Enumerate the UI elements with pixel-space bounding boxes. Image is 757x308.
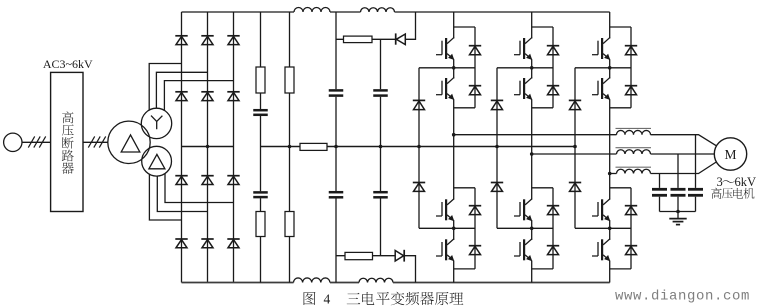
breaker label char 压 <box>62 124 74 135</box>
IGBT Q6 <box>523 78 525 99</box>
leg 1 main column lower <box>453 220 455 282</box>
leg 3 freewheel column lower <box>630 188 632 269</box>
svg-text:6kV: 6kV <box>735 175 757 189</box>
motor M1 <box>714 138 746 170</box>
transformer T1 secondary winding (delta) <box>142 146 172 176</box>
wire delta phase b <box>157 176 207 212</box>
leg 3 main column lower <box>609 220 611 282</box>
transformer T1 secondary delta symbol <box>149 154 165 168</box>
inductor LU core <box>616 127 652 129</box>
svg-text:M: M <box>724 147 736 162</box>
transformer T1 primary delta symbol <box>121 135 140 152</box>
leg 3 freewheel diode DF11 <box>625 205 637 207</box>
leg 2 lower midpoint link <box>497 227 553 229</box>
breaker label char 器 <box>62 162 74 173</box>
column B wire <box>289 12 291 283</box>
resistor R2 <box>256 212 265 237</box>
resistor R4 <box>285 212 294 237</box>
rectifier midpoint link <box>182 146 234 148</box>
wire U to motor <box>651 135 718 147</box>
leg 2 rejoin upper <box>532 107 553 109</box>
leg 2 upper midpoint link <box>497 67 553 69</box>
node neutral junction <box>288 145 292 149</box>
resistor R1 <box>256 67 265 93</box>
leg 1 upper midpoint link <box>419 67 475 69</box>
IGBT Q12 <box>601 239 603 260</box>
breaker label char 路 <box>62 150 74 162</box>
AC source G1 <box>4 133 22 151</box>
leg 2 freewheel diode DF8 <box>547 245 559 247</box>
DC- bottom rail <box>182 282 294 284</box>
leg 2 clamp column <box>496 68 498 229</box>
diode D13 <box>395 33 397 44</box>
leg 3 clamp column <box>574 68 576 229</box>
leg 1 freewheel column lower <box>474 188 476 269</box>
motor label char 高 <box>711 188 722 199</box>
leg 2 main column lower <box>531 220 533 282</box>
resistor R7 <box>345 252 373 259</box>
leg 3 clamp diode DC5 <box>569 99 581 101</box>
svg-text:4: 4 <box>324 291 331 306</box>
leg 1 freewheel diode DF3 <box>469 205 481 207</box>
wire Y phase a <box>149 64 181 111</box>
node upper midpoint leg 1 <box>452 66 456 70</box>
leg 3 rejoin upper <box>610 107 631 109</box>
rectifier column 2 wire <box>207 12 209 283</box>
leg 2 freewheel diode DF5 <box>547 45 559 47</box>
leg 1 freewheel diode DF2 <box>469 85 481 87</box>
leg 3 branch to diode column lower <box>610 187 631 189</box>
node neutral junction <box>334 145 338 149</box>
caption char 频 <box>405 292 419 305</box>
wire Y phase b <box>156 72 207 108</box>
wire breaker to transformer <box>83 141 108 143</box>
leg 1 lower midpoint link <box>419 227 475 229</box>
leg 2 branch to diode column top <box>532 26 553 28</box>
node neutral end <box>573 145 576 148</box>
filter ground bus <box>660 211 696 213</box>
3-phase slashes cable 1 <box>28 136 34 147</box>
node phase output leg 2 <box>530 152 534 156</box>
phase U line <box>453 134 617 136</box>
resistor R5 on neutral <box>300 143 327 150</box>
leg 3 freewheel diode DF10 <box>625 85 637 87</box>
filter capacitor C7 <box>652 188 667 191</box>
inductor LV <box>617 150 651 154</box>
capacitor C3 <box>329 89 344 92</box>
capacitor C6 <box>373 191 388 194</box>
wire delta phase a <box>149 174 181 220</box>
rectifier diode D11 <box>201 238 213 240</box>
node lower midpoint leg 1 <box>452 227 456 231</box>
column A wire to mid <box>260 116 262 147</box>
leg 2 clamp diode DC4 <box>491 182 503 184</box>
leg 2 main column upper <box>531 12 533 199</box>
leg 3 clamp diode DC6 <box>569 182 581 184</box>
wire Y phase c <box>164 81 233 111</box>
leg 3 freewheel diode DF12 <box>625 245 637 247</box>
node upper midpoint leg 3 <box>608 66 612 70</box>
node lower midpoint leg 2 <box>530 227 534 231</box>
phase V line <box>531 153 617 155</box>
rectifier diode D12 <box>227 238 239 240</box>
caption char 理 <box>449 292 463 304</box>
leg 1 freewheel column upper <box>474 27 476 108</box>
rectifier diode D2 <box>201 35 213 37</box>
node phase output leg 1 <box>452 133 456 137</box>
IGBT Q3 <box>445 199 447 220</box>
motor label char 压 <box>722 188 733 198</box>
filter capacitor C8 <box>671 188 686 191</box>
motor label char 机 <box>743 188 754 199</box>
wire W to motor <box>651 162 718 174</box>
leg 1 clamp column <box>418 68 420 229</box>
IGBT Q1 <box>445 38 447 59</box>
node lower midpoint leg 3 <box>608 227 612 231</box>
caption char 变 <box>391 292 405 306</box>
IGBT Q7 <box>523 199 525 220</box>
filter cap C9 lower lead <box>695 197 697 212</box>
DC+ top rail <box>182 11 295 13</box>
leg 2 branch to diode column lower <box>532 187 553 189</box>
column C wire upper <box>335 12 337 89</box>
leg 3 lower midpoint link <box>575 227 631 229</box>
filter tap V <box>677 154 679 188</box>
rectifier diode D1 <box>175 35 187 37</box>
leg 1 branch to diode column lower <box>454 187 475 189</box>
rectifier diode D10 <box>175 238 187 240</box>
capacitor C5 <box>373 89 388 92</box>
leg 2 freewheel diode DF7 <box>547 205 559 207</box>
inductor LU <box>617 130 651 134</box>
rectifier diode D7 <box>175 175 187 177</box>
3-phase slashes cable 2 <box>88 136 94 147</box>
motor label char 电 <box>733 188 743 199</box>
svg-text:www.diangon.com: www.diangon.com <box>615 289 750 305</box>
leg 3 branch to diode column top <box>610 26 631 28</box>
leg 1 rejoin upper <box>454 107 475 109</box>
leg 3 main column upper <box>609 12 611 199</box>
caption char 三 <box>347 293 361 304</box>
resistor R6 <box>344 36 373 43</box>
filter capacitor C9 <box>688 188 703 191</box>
rectifier diode D8 <box>201 175 213 177</box>
column A wire bottom <box>260 198 262 282</box>
node rectifier midpoint <box>206 145 209 148</box>
caption char 平 <box>376 292 389 305</box>
leg 2 clamp diode DC3 <box>491 99 503 101</box>
wire precharge top <box>336 12 416 39</box>
leg 1 main column upper <box>453 12 455 199</box>
column C wire middle <box>335 97 337 191</box>
leg 1 clamp diode DC1 <box>413 99 425 101</box>
filter tap U <box>695 135 697 188</box>
leg 1 rejoin lower <box>454 268 475 270</box>
rectifier column 1 wire <box>181 12 183 283</box>
caption char 器 <box>420 292 434 305</box>
node phase output leg 3 <box>608 172 612 176</box>
leg 1 branch to diode column top <box>454 26 475 28</box>
caption char 图 <box>304 292 316 305</box>
IGBT Q8 <box>523 239 525 260</box>
rectifier column 3 wire <box>233 12 235 283</box>
breaker label char 高 <box>62 111 73 123</box>
node neutral junction <box>379 145 383 149</box>
IGBT Q5 <box>523 38 525 59</box>
rectifier diode D4 <box>175 91 187 93</box>
rectifier diode D5 <box>201 91 213 93</box>
leg 2 rejoin lower <box>532 268 553 270</box>
leg 1 freewheel diode DF1 <box>469 45 481 47</box>
breaker label char 断 <box>62 137 74 149</box>
wire precharge bottom <box>336 256 416 283</box>
breaker QF1 box <box>51 72 83 211</box>
node clamp-neutral junction leg 2 <box>495 145 499 149</box>
transformer T1 Y symbol <box>151 116 162 130</box>
capacitor C1 <box>253 109 268 112</box>
column C wire lower <box>335 199 337 283</box>
leg 1 clamp diode DC2 <box>413 182 425 184</box>
column D wire middle <box>380 97 382 191</box>
caption char 电 <box>362 292 374 305</box>
IGBT Q10 <box>601 78 603 99</box>
column D wire upper <box>380 39 382 89</box>
wire source to breaker <box>22 141 51 143</box>
column A wire upper <box>260 12 262 109</box>
svg-text:3: 3 <box>717 175 723 189</box>
inductor LV core <box>616 147 652 149</box>
IGBT Q9 <box>601 38 603 59</box>
rectifier diode D9 <box>227 175 239 177</box>
leg 2 freewheel diode DF6 <box>547 85 559 87</box>
rectifier diode D6 <box>227 91 239 93</box>
transformer T1 secondary winding (Y) <box>141 108 171 138</box>
ground symbol <box>677 212 679 219</box>
resistor R3 <box>285 67 294 93</box>
rectifier diode D3 <box>227 35 239 37</box>
leg 3 freewheel column upper <box>630 27 632 108</box>
filter cap C7 lower lead <box>659 197 661 212</box>
capacitor C2 <box>253 191 268 194</box>
inductor LW core <box>616 166 652 168</box>
transformer T1 primary winding (delta) <box>108 121 150 163</box>
diode D14 <box>395 251 403 262</box>
IGBT Q4 <box>445 239 447 260</box>
leg 3 freewheel diode DF9 <box>625 45 637 47</box>
IGBT Q11 <box>601 199 603 220</box>
caption char 原 <box>435 292 448 305</box>
capacitor C4 <box>329 191 344 194</box>
filter tap W <box>659 174 661 188</box>
node clamp-neutral junction leg 3 <box>573 145 577 149</box>
inductor LW <box>617 169 651 173</box>
leg 3 rejoin lower <box>610 268 631 270</box>
column D wire lower <box>380 199 382 256</box>
leg 2 freewheel column upper <box>552 27 554 108</box>
filter cap C8 lower lead <box>677 197 679 212</box>
svg-text:AC3~6kV: AC3~6kV <box>43 57 93 71</box>
wire V to motor <box>651 153 715 155</box>
leg 1 freewheel diode DF4 <box>469 245 481 247</box>
neutral mid rail <box>261 146 576 148</box>
node upper midpoint leg 2 <box>530 66 534 70</box>
phase W line <box>609 173 617 175</box>
node ground junction <box>676 210 680 214</box>
IGBT Q2 <box>445 78 447 99</box>
wire delta phase c <box>165 174 234 203</box>
leg 3 upper midpoint link <box>575 67 631 69</box>
node clamp-neutral junction leg 1 <box>417 145 421 149</box>
leg 2 freewheel column lower <box>552 188 554 269</box>
column A wire lower <box>260 147 262 192</box>
